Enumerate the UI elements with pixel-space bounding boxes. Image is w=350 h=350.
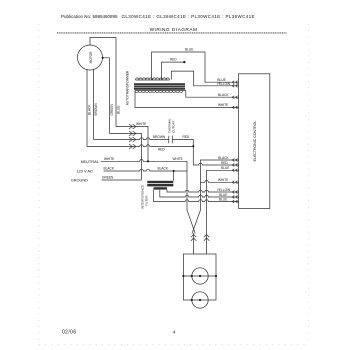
svg-text:BLUE: BLUE <box>185 48 193 52</box>
svg-text:BLACK: BLACK <box>218 156 229 160</box>
wire motor top loop <box>90 38 116 127</box>
wire black to control <box>201 160 239 208</box>
wire 120vac black <box>104 169 187 171</box>
connector P1 <box>129 124 136 129</box>
label BLUE <box>185 48 193 52</box>
connector lamp chevrons <box>191 235 196 241</box>
label RED <box>183 135 190 139</box>
svg-text:Publication No: 5995460895: Publication No: 5995460895 <box>61 14 118 19</box>
svg-text:WHITE: WHITE <box>218 103 228 107</box>
footer date <box>62 329 77 335</box>
node red terminal <box>183 61 185 63</box>
svg-text:NEUTRAL: NEUTRAL <box>81 159 100 164</box>
wire blue row b <box>154 190 239 202</box>
label GROUND <box>71 177 88 182</box>
label BLACK <box>218 156 229 160</box>
wire blue row a <box>160 190 239 197</box>
svg-text:FILTER: FILTER <box>144 195 148 206</box>
label RED <box>158 148 165 152</box>
wire yellow row <box>167 190 239 192</box>
node filter junction <box>173 170 175 172</box>
svg-text:RED: RED <box>221 161 228 165</box>
wire neutral <box>101 159 187 207</box>
svg-text:WHITE: WHITE <box>136 122 146 126</box>
connector P3 <box>129 137 136 142</box>
svg-text:BLUE: BLUE <box>219 193 227 197</box>
svg-text:WHITE: WHITE <box>104 157 114 161</box>
wire white from winding <box>135 91 239 108</box>
svg-text:AUTOTRANSFORMER: AUTOTRANSFORMER <box>126 70 130 105</box>
svg-text:MOTOR: MOTOR <box>89 51 93 64</box>
label BROWN <box>153 135 166 139</box>
label 120VAC <box>76 168 93 173</box>
svg-text:BLACK: BLACK <box>104 167 115 171</box>
connector P4 <box>129 144 136 149</box>
wire blue to lamps <box>207 170 239 254</box>
label YELLOW <box>217 82 230 86</box>
thermal cutoff TCO <box>169 136 173 143</box>
label BLUE <box>221 166 229 170</box>
node neutral junction <box>147 160 149 162</box>
svg-text:WHITE: WHITE <box>218 178 228 182</box>
svg-text:GREEN: GREEN <box>110 103 114 115</box>
wire motor brown lead <box>93 69 95 140</box>
lamp B2 <box>192 292 208 308</box>
svg-text:GREEN: GREEN <box>102 176 114 180</box>
filter winding 2 <box>147 184 173 187</box>
label BLACK <box>88 104 92 115</box>
footer page number <box>173 330 176 335</box>
interference filter L1 <box>141 185 149 209</box>
label WHITE <box>218 103 228 107</box>
wire blue tap <box>152 52 239 82</box>
label BLUE <box>217 78 225 82</box>
winding top <box>136 78 170 80</box>
node motor junction <box>102 57 104 59</box>
svg-text:BLACK: BLACK <box>218 93 229 97</box>
core <box>134 83 185 90</box>
svg-text:BLACK: BLACK <box>88 104 92 115</box>
svg-text:ELECTRONIC CONTROL: ELECTRONIC CONTROL <box>253 121 257 162</box>
wire red to control <box>193 146 238 165</box>
label BLUE <box>117 106 121 114</box>
wire row3 brown <box>94 138 194 146</box>
svg-text:RED: RED <box>158 148 165 152</box>
label WHITE <box>104 157 114 161</box>
label RED <box>170 57 177 61</box>
filter winding 3 <box>154 187 168 189</box>
connector P2 <box>129 131 136 136</box>
svg-text:BLACK: BLACK <box>158 167 169 171</box>
svg-text:120 V AC: 120 V AC <box>76 168 93 173</box>
lamp B1 <box>192 268 208 284</box>
autotransformer T1 <box>126 70 130 105</box>
winding bottom <box>135 91 183 93</box>
header publication text <box>61 14 255 33</box>
label BLUE <box>219 193 227 197</box>
svg-text:RED: RED <box>183 135 190 139</box>
electronic control U1 <box>239 74 270 209</box>
svg-text:GROUND: GROUND <box>71 177 88 182</box>
label NEUTRAL <box>81 159 100 164</box>
label GREEN <box>110 103 114 115</box>
motor M1 <box>78 45 103 70</box>
label RED <box>221 161 228 165</box>
wire red tap <box>162 62 185 80</box>
svg-text:02/06: 02/06 <box>62 329 77 335</box>
wire black from winding <box>182 91 238 98</box>
label BROWN <box>94 103 98 116</box>
label GREEN <box>102 176 114 180</box>
wire black to filter <box>173 171 175 181</box>
svg-text:YELLOW: YELLOW <box>217 82 230 86</box>
wire motor green lead <box>103 58 110 134</box>
svg-text:BLUE: BLUE <box>221 166 229 170</box>
wire motor black lead <box>86 69 88 147</box>
label BLACK <box>104 167 115 171</box>
svg-text:4: 4 <box>173 330 176 335</box>
wire row2 green <box>110 134 142 181</box>
wire row1 white <box>116 127 148 162</box>
wire lamp feed merge <box>187 208 201 255</box>
node red junction <box>192 145 194 147</box>
svg-text:CUTOFF: CUTOFF <box>171 120 175 133</box>
svg-text:BROWN: BROWN <box>94 103 98 116</box>
svg-text:GL30WC41E : GL36WC41E : PL30WC: GL30WC41E : GL36WC41E : PL30WC41E : PL36… <box>122 14 255 19</box>
filter winding 1 <box>147 181 173 184</box>
label WHITE <box>218 178 228 182</box>
label BLUE <box>219 197 227 201</box>
svg-text:BROWN: BROWN <box>153 135 166 139</box>
lamp enclosure <box>183 254 216 300</box>
svg-text:YELLOW: YELLOW <box>217 188 230 192</box>
svg-text:BLUE: BLUE <box>117 106 121 114</box>
label BLACK <box>218 93 229 97</box>
svg-text:BLUE: BLUE <box>219 197 227 201</box>
svg-text:WHITE: WHITE <box>173 157 183 161</box>
wire ground green <box>102 179 142 181</box>
connector arrows at control <box>232 81 237 203</box>
label WHITE <box>136 122 146 126</box>
svg-text:RED: RED <box>170 57 177 61</box>
header separator rule <box>57 31 287 33</box>
wire white to control <box>201 181 239 183</box>
wire row4 red <box>87 145 193 147</box>
label YELLOW <box>217 188 230 192</box>
wire yellow tap <box>171 71 238 86</box>
